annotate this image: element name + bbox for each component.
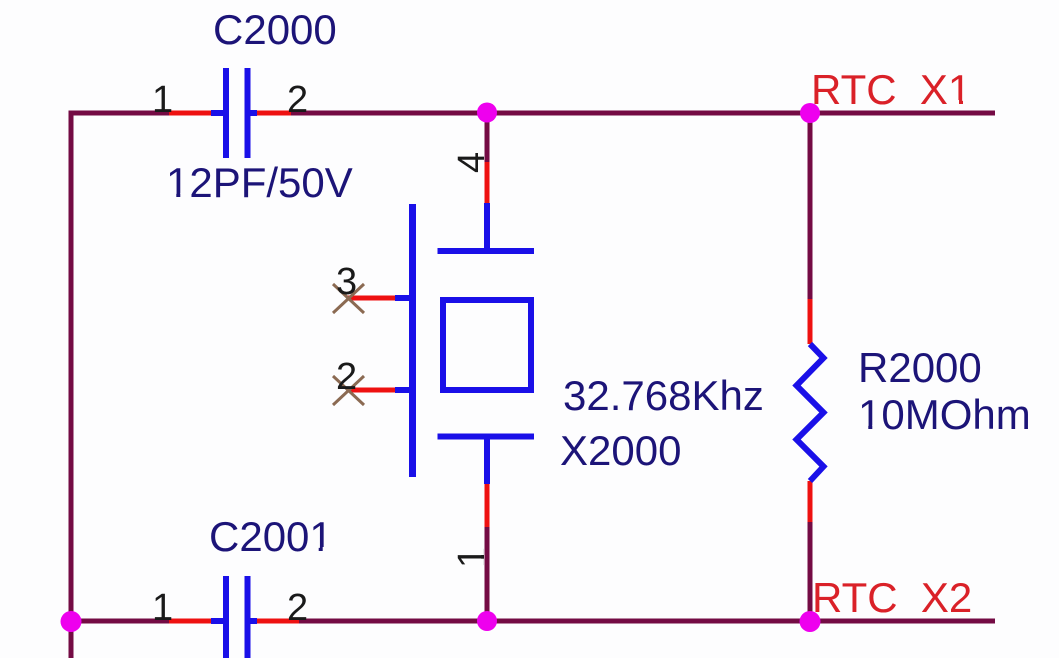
svg-text:32.768Khz: 32.768Khz [563, 372, 764, 419]
pin 1 stub of C2000 [169, 111, 213, 116]
X2000 pin 2 blue tick [395, 387, 416, 393]
wire: top horizontal right segment [290, 111, 995, 116]
no-connect X on pin 2 [333, 376, 364, 405]
capacitor C2000 [169, 68, 291, 158]
svg-text:RTC X1: RTC X1 [811, 66, 971, 113]
wire: top horizontal left segment [69, 111, 170, 116]
pin number 1 of X2000 (rotated) [451, 547, 493, 568]
R2000 zigzag body [797, 344, 824, 481]
X2000 top pin blue lead [484, 203, 490, 251]
svg-text:2: 2 [287, 587, 308, 629]
C2001 right lead tick [247, 618, 257, 624]
X2000 bottom pin blue lead [484, 437, 490, 485]
svg-text:C2001: C2001 [209, 513, 333, 560]
pin 4 stub (red) of X2000 [485, 162, 490, 205]
svg-text:1: 1 [152, 587, 173, 629]
pin 2 stub of C2001 [255, 619, 299, 624]
X2000 case vertical line [409, 204, 416, 477]
svg-text:4: 4 [451, 152, 493, 173]
pin 1 stub of C2001 [169, 619, 213, 624]
wire: right vertical lower segment [808, 521, 813, 621]
C2000 left lead tick [211, 110, 226, 116]
svg-text:12PF/50V: 12PF/50V [166, 159, 353, 206]
wire: bottom horizontal left segment [71, 619, 169, 624]
wire: bottom horizontal right segment [290, 619, 995, 624]
X2000 pin 3 blue tick [395, 295, 416, 301]
svg-text:1: 1 [451, 547, 493, 568]
svg-text:R2000: R2000 [858, 344, 982, 391]
wire: crystal bottom branch [485, 527, 490, 621]
crystal X2000 [347, 162, 534, 527]
wire: left vertical [69, 111, 74, 658]
junction node at crystal top / top wire [477, 103, 497, 123]
wire: crystal top branch [485, 113, 490, 162]
svg-text:C2000: C2000 [213, 6, 337, 53]
junction node at R2000 top / top wire [800, 103, 820, 123]
svg-text:3: 3 [336, 261, 357, 303]
svg-text:2: 2 [287, 79, 308, 121]
X2000 crystal body square [443, 300, 531, 390]
pin 2 stub of C2000 [255, 111, 291, 116]
pin 3 stub (red) of X2000 [347, 296, 397, 301]
C2000 left plate [223, 68, 229, 158]
svg-text:X2000: X2000 [560, 427, 681, 474]
resistor R2000 [797, 299, 824, 522]
no-connect X on pin 3 [333, 284, 364, 313]
svg-text:1: 1 [152, 79, 173, 121]
svg-text:RTC X2: RTC X2 [812, 574, 972, 621]
C2001 left lead tick [211, 618, 226, 624]
R2000 top pin stub (red) [808, 299, 813, 344]
junction node at R2000 bottom / bottom wire [800, 611, 821, 632]
X2000 bottom electrode plate [438, 434, 535, 440]
R2000 bottom pin stub (red) [808, 481, 813, 522]
svg-text:10MOhm: 10MOhm [858, 391, 1031, 438]
C2000 right plate [245, 68, 251, 158]
svg-text:2: 2 [336, 356, 357, 398]
pin 1 stub (red) of X2000 [485, 484, 490, 527]
junction node bottom-left corner [61, 611, 82, 632]
capacitor C2001 [169, 576, 299, 658]
junction node at crystal bottom / bottom wire [477, 611, 497, 631]
C2001 left plate [223, 576, 229, 658]
X2000 top electrode plate [438, 248, 535, 254]
pin 2 stub (red) of X2000 [347, 388, 397, 393]
C2000 right lead tick [247, 110, 257, 116]
serif-foot masks to mimic Arial "1" [951, 100, 959, 105]
wire: right vertical upper segment [808, 113, 813, 301]
C2001 right plate [245, 576, 251, 658]
